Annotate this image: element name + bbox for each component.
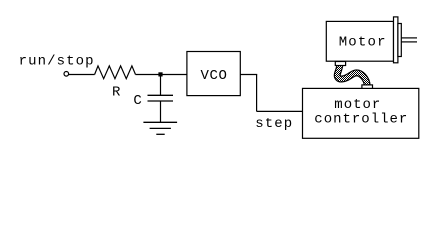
svg-text:Motor: Motor — [339, 35, 387, 51]
svg-text:motor: motor — [334, 97, 381, 113]
motor shaft line top — [401, 37, 417, 39]
wire capacitor to ground — [160, 101, 162, 122]
motor controller box — [303, 88, 419, 138]
VCO box U1 — [187, 52, 240, 96]
wire terminal to resistor — [69, 74, 95, 76]
junction dot node — [158, 72, 162, 76]
svg-text:VCO: VCO — [201, 68, 228, 84]
wire vertical down step — [256, 75, 258, 112]
svg-text:R: R — [112, 85, 121, 101]
motor cable flange at motor — [335, 62, 345, 66]
svg-text:C: C — [133, 93, 142, 109]
svg-text:step: step — [255, 116, 293, 132]
svg-text:run/stop: run/stop — [19, 54, 95, 70]
resistor R1 zigzag — [95, 66, 136, 79]
motor shaft collar — [398, 24, 401, 57]
wire step into motor controller — [257, 110, 303, 112]
motor shaft line bottom — [401, 41, 417, 43]
motor end cap — [394, 17, 398, 63]
ground symbol — [143, 122, 177, 134]
motor body box — [326, 21, 393, 61]
capacitor C bottom plate — [148, 100, 174, 102]
capacitor C top plate — [148, 94, 174, 96]
wire VCO output right — [240, 74, 257, 76]
terminal circle (run/stop input) — [64, 72, 69, 77]
wire resistor to VCO — [136, 74, 187, 76]
motor cable checkered tube — [337, 65, 367, 86]
motor cable outline — [337, 65, 367, 86]
wire junction down to capacitor — [160, 75, 162, 96]
svg-text:controller: controller — [314, 112, 408, 128]
motor cable flange at controller — [362, 85, 373, 89]
